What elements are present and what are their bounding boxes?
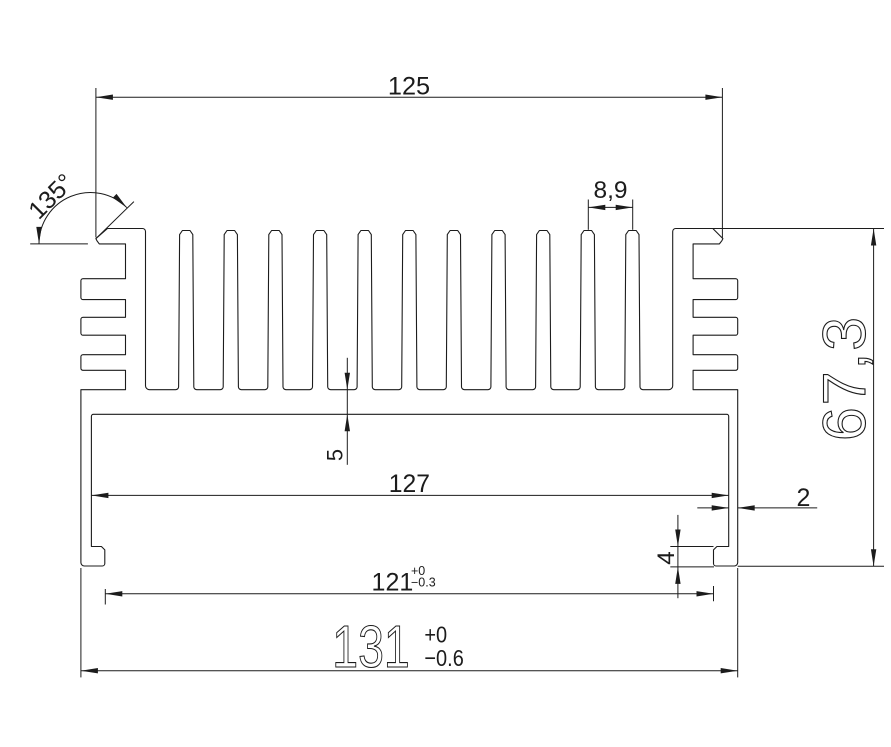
dimension 67,3 : arrowheads [871, 229, 876, 246]
dimension 121 : extension line stubs [104, 589, 106, 605]
dimension 5 : dimension line [346, 358, 348, 465]
dimension 8,9 : extension lines [587, 200, 589, 230]
dimension 135deg : horizontal reference line [30, 243, 88, 245]
dimension 8,9 : dimension line [588, 206, 632, 208]
svg-text:−0.6: −0.6 [424, 645, 463, 672]
dimension 131 : dimension line [81, 670, 738, 672]
svg-text:2: 2 [797, 484, 811, 512]
dimension 127 : arrowheads [91, 493, 108, 498]
dimension 131 : arrowheads [81, 668, 98, 673]
svg-text:121: 121 [372, 569, 414, 597]
svg-text:5: 5 [323, 449, 348, 461]
dimension 5 : arrowheads [345, 373, 350, 390]
svg-text:8,9: 8,9 [593, 177, 627, 204]
svg-text:125: 125 [388, 72, 430, 100]
dimension 67,3 : extension lines [713, 228, 884, 230]
svg-text:131: 131 [332, 615, 409, 681]
dimension 125 : dimension line [96, 96, 723, 98]
dimension 135deg : chamfer extension line [96, 202, 134, 239]
dimension 8,9 : arrowheads [588, 205, 605, 210]
dimension 4 : extension lines [670, 546, 713, 548]
svg-text:135°: 135° [23, 168, 79, 224]
dimension 4 : dimension line [677, 515, 679, 598]
svg-text:−0.3: −0.3 [411, 575, 436, 589]
svg-text:4: 4 [653, 551, 680, 565]
dimension 131 : extension lines [80, 568, 82, 677]
dimension 2 : arrowheads [712, 505, 729, 510]
dimension 121 : dimension line [105, 593, 713, 595]
dimension 125 : arrowheads [96, 95, 113, 100]
dimension 135deg : arrowheads [36, 227, 41, 244]
dimension 125 : extension lines [95, 88, 97, 237]
dimension 2 : dimension line tails [697, 507, 728, 509]
svg-text:67,3: 67,3 [810, 315, 878, 441]
dimension 127 : dimension line [91, 494, 728, 496]
dimension 4 : arrowheads [675, 530, 680, 547]
svg-text:127: 127 [389, 471, 430, 498]
dimension 135deg : arc [39, 192, 127, 243]
dimension 121 : arrowheads [105, 591, 122, 596]
dimension 67,3 : dimension line [873, 229, 875, 567]
heatsink extrusion profile outline [81, 229, 738, 567]
